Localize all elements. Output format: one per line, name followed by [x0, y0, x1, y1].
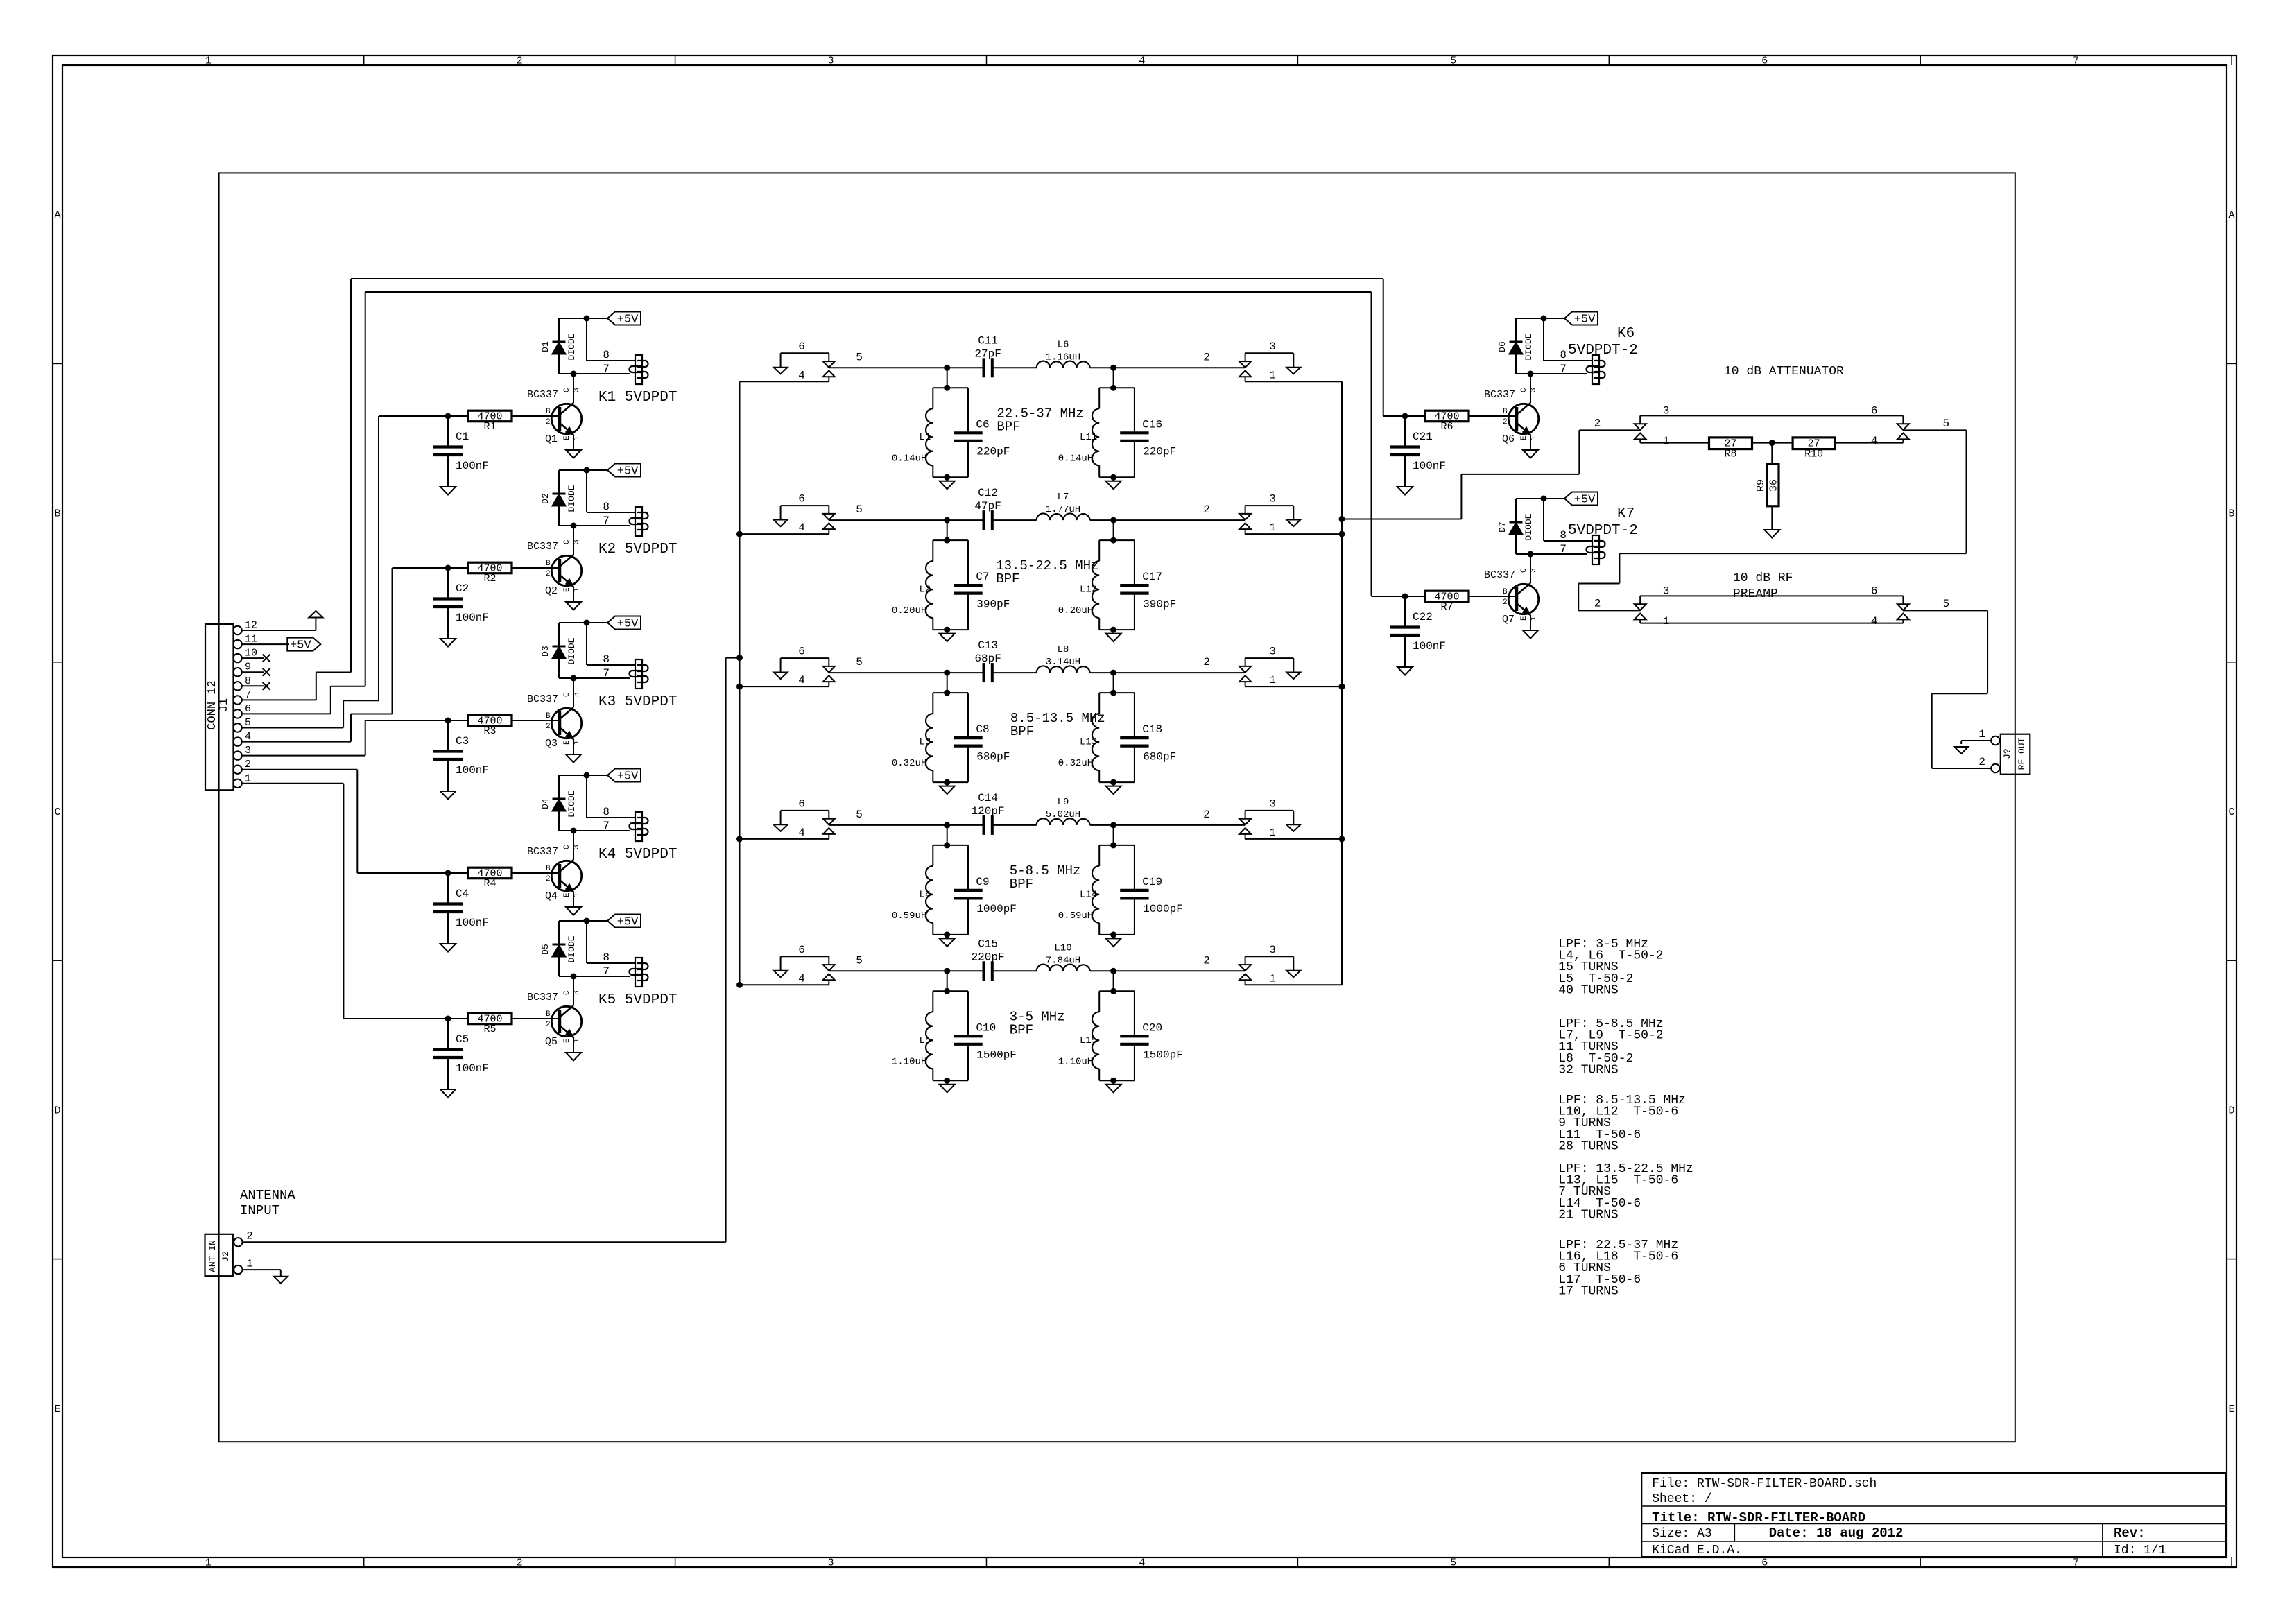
resistor R4 4700	[357, 872, 468, 874]
wire coil pin 7 D2	[559, 525, 630, 526]
junction output bus row3	[1339, 684, 1345, 690]
svg-text:1.16uH: 1.16uH	[1046, 352, 1080, 363]
svg-text:E: E	[2228, 1403, 2234, 1415]
svg-text:B: B	[1503, 408, 1508, 416]
junction base node R4	[445, 870, 451, 876]
svg-text:1500pF: 1500pF	[1143, 1049, 1183, 1062]
ground Q2 emitter	[566, 602, 581, 610]
wire tank bottom L13/C18	[1099, 781, 1135, 783]
svg-text:Q3: Q3	[545, 738, 558, 750]
svg-text:E: E	[1520, 616, 1528, 621]
svg-text:120pF: 120pF	[972, 805, 1005, 818]
svg-text:K5 5VDPDT: K5 5VDPDT	[598, 992, 677, 1008]
svg-text:220pF: 220pF	[972, 951, 1005, 963]
wire BPF line pin5 K4	[829, 824, 983, 826]
inductor L1 0.14uH	[933, 387, 968, 388]
svg-text:C16: C16	[1142, 418, 1162, 431]
svg-text:5: 5	[856, 809, 863, 821]
capacitor C18 680pF	[1134, 693, 1135, 738]
ground C2	[440, 639, 456, 647]
svg-text:D4: D4	[540, 798, 551, 809]
wire emitter Q1	[573, 435, 574, 450]
svg-text:DIODE: DIODE	[1524, 333, 1534, 360]
capacitor C3 100nF	[447, 720, 449, 752]
ground C5	[440, 1089, 456, 1098]
svg-text:BC337: BC337	[527, 846, 558, 858]
wire coil pin 7 D5	[559, 976, 630, 977]
wire BPF line pin5 K3	[829, 672, 983, 673]
wire coil pin 7 D1	[559, 373, 630, 374]
svg-text:4: 4	[798, 827, 805, 839]
svg-text:4: 4	[798, 674, 805, 686]
junction base node R1	[445, 413, 451, 420]
svg-text:2: 2	[1503, 418, 1508, 426]
svg-text:BC337: BC337	[527, 389, 558, 401]
+5V power flag D1	[584, 316, 590, 322]
wire emitter Q3	[573, 739, 574, 754]
ground tank L2/C7	[947, 630, 948, 634]
svg-text:6: 6	[798, 493, 805, 506]
wire +5V top D3	[559, 622, 587, 623]
svg-text:36: 36	[1768, 479, 1780, 492]
svg-text:4: 4	[1139, 1557, 1145, 1569]
wire antenna bus vertical	[739, 381, 741, 985]
+5V power flag (pin 11)	[287, 638, 320, 651]
svg-text:3: 3	[573, 845, 581, 849]
relay contact K2 pins 3/2/1 (right)	[1245, 505, 1294, 506]
transistor Q7 BC337	[1530, 554, 1531, 583]
transistor Q6 BC337	[1530, 374, 1531, 403]
svg-text:C4: C4	[456, 888, 469, 900]
capacitor C15 220pF (series)	[983, 961, 985, 981]
svg-text:L15: L15	[1080, 1035, 1097, 1046]
ground tank L5/C10	[947, 1080, 948, 1085]
capacitor C7 390pF	[967, 540, 969, 585]
svg-text:390pF: 390pF	[1143, 598, 1176, 610]
wire emitter Q5	[573, 1037, 574, 1053]
svg-text:L5: L5	[919, 1035, 931, 1046]
svg-text:8: 8	[1560, 349, 1567, 361]
svg-text:17 TURNS: 17 TURNS	[1558, 1284, 1618, 1298]
svg-text:3: 3	[1530, 388, 1538, 392]
svg-text:2: 2	[517, 55, 523, 67]
svg-text:2: 2	[1203, 954, 1210, 967]
svg-text:390pF: 390pF	[976, 598, 1010, 610]
J1 pin 4	[233, 737, 241, 745]
capacitor C16 220pF	[1134, 388, 1135, 433]
wire tank bottom L15/C20	[1099, 1080, 1135, 1081]
svg-text:5: 5	[1450, 1557, 1456, 1569]
svg-text:1500pF: 1500pF	[976, 1049, 1017, 1062]
transistor Q2 BC337	[573, 526, 574, 555]
svg-text:D: D	[54, 1105, 60, 1116]
wire C12 to L7	[992, 519, 1037, 521]
ground Q3 emitter	[566, 754, 581, 763]
svg-text:C5: C5	[456, 1033, 469, 1046]
relay coil R5	[635, 958, 642, 987]
junction tank node L4/C9	[944, 822, 950, 828]
svg-text:2: 2	[246, 1230, 253, 1243]
capacitor C5 100nF	[447, 1019, 449, 1050]
wire tank bottom L3/C8	[933, 781, 968, 783]
svg-text:K7: K7	[1617, 506, 1635, 522]
wire base Q1	[512, 415, 560, 417]
svg-text:8: 8	[603, 806, 610, 818]
svg-text:+5V: +5V	[617, 465, 639, 478]
wire J1 pin 12 to power arrow	[242, 630, 316, 631]
wire BPF K5 pin1 to output bus	[1245, 984, 1342, 985]
ground C22	[1397, 667, 1413, 675]
wire C11 to L6	[992, 367, 1037, 368]
ground tank L4/C9	[947, 935, 948, 939]
svg-text:5: 5	[856, 503, 863, 516]
inductor L8 3.14uH (series)	[1037, 666, 1090, 673]
wire L8 to output	[1090, 672, 1245, 673]
svg-text:Q2: Q2	[545, 585, 558, 597]
svg-text:0.20uH: 0.20uH	[1058, 605, 1093, 616]
wire coil pin 8 D1	[586, 318, 587, 361]
svg-text:+5V: +5V	[1574, 313, 1596, 327]
wire tank bottom L5/C10	[933, 1080, 968, 1081]
svg-text:6: 6	[1761, 55, 1768, 67]
ground Q7 emitter	[1523, 630, 1538, 639]
svg-text:B: B	[546, 865, 551, 873]
capacitor C14 120pF (series)	[983, 815, 985, 835]
svg-text:6: 6	[798, 646, 805, 658]
wire +5V top D4	[559, 775, 587, 776]
svg-text:0.32uH: 0.32uH	[1058, 758, 1093, 769]
connector J1 CONN_12 body	[205, 624, 234, 790]
svg-text:L9: L9	[1058, 797, 1069, 808]
svg-text:1.10uH: 1.10uH	[892, 1056, 926, 1067]
+5V power flag D6	[1541, 316, 1547, 322]
svg-text:ANTENNA: ANTENNA	[240, 1188, 295, 1203]
junction base node R3	[445, 718, 451, 724]
wire BPF K3 pin4 to antenna bus	[740, 686, 829, 687]
svg-text:6: 6	[798, 797, 805, 810]
junction base node R2	[445, 565, 451, 571]
junction collector node Q7	[1528, 551, 1534, 558]
svg-text:B: B	[54, 508, 60, 520]
border row ticks and labels	[53, 363, 62, 364]
inductor L3 0.32uH	[933, 692, 968, 693]
resistor R5 4700	[343, 1018, 468, 1019]
junction collector node Q2	[571, 523, 577, 529]
svg-text:E: E	[1520, 435, 1528, 440]
no-connect X pin 10	[263, 655, 270, 662]
transistor Q3 BC337	[573, 678, 574, 707]
relay contact K3 pins 6/5/4 (left)	[781, 657, 829, 659]
svg-text:C22: C22	[1413, 611, 1433, 623]
svg-text:C: C	[54, 806, 60, 818]
svg-text:L4: L4	[919, 889, 931, 900]
wire R10 to pin4	[1835, 442, 1903, 444]
junction tank node L5/C10	[944, 968, 950, 974]
wire coil pin 8 D4	[586, 775, 587, 818]
diode D5	[558, 921, 560, 944]
relay contact K4 pins 3/2/1 (right)	[1245, 810, 1294, 811]
svg-text:4: 4	[1871, 435, 1878, 447]
svg-text:1000pF: 1000pF	[976, 903, 1017, 915]
svg-text:10 dB RF: 10 dB RF	[1733, 571, 1793, 585]
wire J2 pin1 to ground	[243, 1269, 281, 1270]
svg-text:1: 1	[246, 1257, 253, 1270]
svg-text:BC337: BC337	[527, 992, 558, 1003]
resistor R3 4700	[365, 720, 468, 721]
svg-text:J?: J?	[2002, 748, 2012, 759]
wire base Q5	[512, 1018, 560, 1019]
svg-text:3: 3	[1269, 797, 1276, 810]
svg-text:5.02uH: 5.02uH	[1046, 809, 1080, 820]
relay contact K6 pins 1/4 lower	[1635, 433, 1646, 440]
ground C1	[440, 487, 456, 495]
svg-text:C19: C19	[1142, 876, 1162, 888]
svg-text:6: 6	[1871, 585, 1878, 597]
wire select bus K7 (second horizontal)	[365, 291, 1372, 293]
ground C3	[440, 791, 456, 800]
wire base Q2	[512, 567, 560, 569]
svg-text:C: C	[2228, 806, 2234, 818]
svg-text:2: 2	[245, 759, 251, 770]
junction collector node Q5	[571, 974, 577, 980]
ground tank L1/C6	[947, 477, 948, 481]
J1 pin 2	[233, 766, 241, 774]
svg-text:100nF: 100nF	[456, 764, 489, 777]
svg-text:2: 2	[517, 1557, 523, 1569]
svg-text:DIODE: DIODE	[1524, 513, 1534, 540]
svg-text:0.59uH: 0.59uH	[892, 910, 926, 922]
junction antenna bus row5	[736, 982, 743, 988]
wire J1 pin 2 to K4 base	[242, 769, 358, 770]
svg-text:47pF: 47pF	[974, 500, 1001, 512]
svg-text:C20: C20	[1142, 1021, 1162, 1034]
svg-text:7: 7	[245, 689, 251, 701]
svg-text:680pF: 680pF	[1143, 750, 1176, 763]
svg-text:7.84uH: 7.84uH	[1046, 955, 1080, 966]
svg-text:Q7: Q7	[1502, 614, 1515, 625]
wire tank bottom L11/C16	[1099, 476, 1135, 478]
J1 pin 7	[233, 696, 241, 704]
svg-text:BPF: BPF	[1010, 724, 1034, 739]
svg-text:2: 2	[546, 723, 551, 731]
svg-text:C6: C6	[976, 418, 989, 431]
wire coil pin 7 D3	[559, 677, 630, 679]
wire +5V top D6	[1516, 318, 1544, 319]
inductor L6 1.16uH (series)	[1037, 361, 1090, 368]
title block frame	[1641, 1473, 2225, 1557]
J1 pin 11	[233, 640, 241, 648]
svg-text:5: 5	[856, 656, 863, 668]
svg-text:2: 2	[546, 1021, 551, 1029]
no-connect X pin 9	[263, 668, 270, 676]
relay contact K1 pins 3/2/1 (right)	[1245, 352, 1294, 354]
wire coil pin 8 D7	[1543, 499, 1544, 541]
svg-text:7: 7	[2073, 55, 2079, 67]
wire J1 pin 5 to K1 base	[242, 727, 343, 729]
capacitor C10 1500pF	[967, 991, 969, 1036]
svg-text:3: 3	[245, 745, 251, 757]
svg-text:7: 7	[603, 667, 610, 680]
resistor R6 4700	[1405, 415, 1425, 417]
svg-text:7: 7	[603, 515, 610, 527]
inductor L11 0.14uH	[1099, 387, 1135, 388]
svg-text:3: 3	[1530, 568, 1538, 573]
svg-text:0.14uH: 0.14uH	[1058, 453, 1093, 464]
+5V power flag D7	[1541, 496, 1547, 502]
diode D6	[1515, 318, 1517, 342]
svg-text:D6: D6	[1497, 341, 1508, 352]
svg-text:E: E	[563, 1038, 571, 1043]
svg-text:2: 2	[1503, 598, 1508, 607]
svg-text:1: 1	[1978, 728, 1985, 741]
svg-text:6: 6	[1761, 1557, 1768, 1569]
resistor R2 4700	[393, 567, 469, 569]
svg-text:D1: D1	[540, 341, 551, 352]
svg-text:E: E	[54, 1403, 60, 1415]
svg-text:INPUT: INPUT	[240, 1203, 279, 1218]
ground tank L11/C16	[1113, 477, 1114, 481]
junction collector node Q4	[571, 828, 577, 834]
svg-text:J2: J2	[221, 1251, 231, 1262]
capacitor C13 68pF (series)	[983, 663, 985, 682]
relay contact K6 pins 3/6 bypass	[1640, 415, 1903, 416]
svg-text:L12: L12	[1080, 585, 1097, 596]
relay contact K7 pins 3/6 bypass	[1640, 595, 1903, 596]
inductor L2 0.20uH	[933, 539, 968, 541]
wire coil pin 8 D6	[1543, 318, 1544, 361]
relay coil R1	[635, 355, 642, 384]
svg-text:6: 6	[1871, 404, 1878, 417]
wire tank bottom L2/C7	[933, 629, 968, 630]
svg-text:L2: L2	[919, 585, 931, 596]
capacitor C4 100nF	[447, 873, 449, 904]
svg-text:DIODE: DIODE	[567, 485, 577, 512]
wire BPF K1 pin1 to output bus	[1245, 381, 1342, 382]
svg-text:2: 2	[1203, 656, 1210, 668]
svg-text:2: 2	[546, 418, 551, 426]
border column ticks and labels	[363, 55, 365, 65]
relay coil R3	[635, 659, 642, 689]
wire +5V top D1	[559, 318, 587, 319]
capacitor C17 390pF	[1134, 540, 1135, 585]
svg-text:C11: C11	[978, 334, 998, 347]
svg-text:File: RTW-SDR-FILTER-BOARD.sch: File: RTW-SDR-FILTER-BOARD.sch	[1652, 1477, 1877, 1491]
svg-text:Q4: Q4	[545, 890, 558, 902]
junction collector node Q6	[1528, 371, 1534, 377]
wire J1 pin 9 stub	[242, 671, 264, 673]
wire coil pin 7 D4	[559, 830, 630, 831]
svg-text:10 dB ATTENUATOR: 10 dB ATTENUATOR	[1724, 365, 1844, 379]
wire C15 to L10	[992, 970, 1037, 971]
junction antenna bus row4	[736, 836, 743, 842]
wire BPF line pin5 K2	[829, 519, 983, 521]
svg-text:5: 5	[1942, 417, 1949, 430]
junction base node R6	[1402, 413, 1408, 420]
wire C14 to L9	[992, 824, 1037, 826]
diode D4	[558, 775, 560, 799]
junction base node R7	[1402, 594, 1408, 600]
svg-text:L6: L6	[1058, 339, 1069, 350]
svg-text:DIODE: DIODE	[567, 935, 577, 962]
wire L9 to output	[1090, 824, 1245, 826]
svg-text:5: 5	[1942, 598, 1949, 610]
svg-text:1.10uH: 1.10uH	[1058, 1056, 1093, 1067]
wire attenuator out to preamp in	[1903, 429, 1966, 431]
svg-text:BPF: BPF	[1010, 1022, 1033, 1037]
relay contact K2 pins 6/5/4 (left)	[781, 505, 829, 506]
inductor L7 1.77uH (series)	[1037, 513, 1090, 520]
svg-text:B: B	[546, 1010, 551, 1019]
wire preamp lower path	[1640, 623, 1903, 624]
wire J1 pin 8 stub	[242, 685, 264, 686]
relay contact K1 pins 6/5/4 (left)	[781, 352, 829, 354]
svg-text:Date: 18 aug 2012: Date: 18 aug 2012	[1769, 1526, 1904, 1541]
svg-text:4: 4	[798, 521, 805, 534]
ground tank L15/C20	[1113, 1080, 1114, 1085]
J1 pin 3	[233, 751, 241, 759]
junction tank node L12/C17	[1110, 517, 1116, 524]
relay contact K7 pins 1/4 lower	[1635, 614, 1646, 620]
resistor R1 4700	[379, 415, 468, 417]
svg-text:C8: C8	[976, 723, 989, 736]
svg-text:6: 6	[245, 703, 251, 715]
inductor L13 0.32uH	[1099, 692, 1135, 693]
wire coil pin 7 D6	[1516, 373, 1587, 374]
svg-text:1: 1	[1269, 827, 1276, 839]
svg-text:D5: D5	[540, 944, 551, 955]
capacitor C1 100nF	[447, 416, 449, 447]
connector J3 RF OUT body	[2001, 734, 2030, 775]
svg-text:PREAMP: PREAMP	[1733, 587, 1778, 601]
svg-text:9: 9	[245, 662, 251, 673]
svg-text:R7: R7	[1440, 601, 1453, 613]
svg-text:1: 1	[1269, 369, 1276, 381]
svg-text:Id: 1/1: Id: 1/1	[2114, 1544, 2166, 1557]
svg-text:27pF: 27pF	[974, 347, 1001, 360]
junction collector node Q1	[571, 371, 577, 377]
svg-text:100nF: 100nF	[456, 917, 489, 929]
svg-text:1: 1	[245, 772, 251, 784]
svg-text:DIODE: DIODE	[567, 333, 577, 360]
svg-text:C17: C17	[1142, 571, 1162, 583]
svg-text:2: 2	[1203, 351, 1210, 363]
wire emitter Q7	[1530, 615, 1531, 630]
J3 pin 1	[1991, 736, 1999, 745]
svg-text:Size: A3: Size: A3	[1652, 1527, 1711, 1541]
svg-text:100nF: 100nF	[1413, 640, 1446, 653]
wire tank bottom L14/C19	[1099, 934, 1135, 935]
svg-text:C12: C12	[978, 487, 998, 499]
wire J1 pin 4 to K2 base	[242, 741, 351, 743]
svg-text:R8: R8	[1724, 449, 1736, 460]
svg-text:B: B	[546, 408, 551, 416]
svg-text:C: C	[563, 845, 571, 849]
junction tank node L11/C16	[1110, 365, 1116, 371]
svg-text:3: 3	[1663, 404, 1670, 417]
junction output bus row4	[1339, 836, 1345, 842]
svg-text:3: 3	[573, 692, 581, 697]
inductor L5 1.10uH	[933, 990, 968, 992]
J2 pin 2	[234, 1238, 242, 1246]
transistor Q4 BC337	[573, 831, 574, 860]
svg-text:0.20uH: 0.20uH	[892, 605, 926, 616]
junction base node R5	[445, 1016, 451, 1022]
svg-text:L10: L10	[1054, 942, 1071, 953]
capacitor C8 680pF	[967, 693, 969, 738]
svg-text:5: 5	[245, 717, 251, 729]
svg-text:C: C	[563, 388, 571, 392]
svg-text:8: 8	[1560, 529, 1567, 542]
